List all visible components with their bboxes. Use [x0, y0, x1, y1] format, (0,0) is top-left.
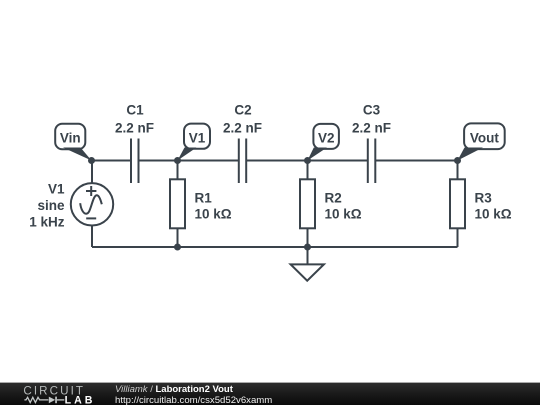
svg-text:2.2 nF: 2.2 nF — [115, 120, 154, 135]
svg-text:http://circuitlab.com/csx5d52v: http://circuitlab.com/csx5d52v6xamm — [115, 395, 272, 405]
svg-text:V2: V2 — [318, 130, 335, 145]
svg-text:10 kΩ: 10 kΩ — [325, 207, 362, 222]
svg-text:R1: R1 — [195, 190, 213, 205]
svg-text:Villiamk / Laboration2 Vout: Villiamk / Laboration2 Vout — [115, 384, 234, 395]
svg-text:2.2 nF: 2.2 nF — [352, 120, 391, 135]
svg-text:sine: sine — [37, 198, 65, 213]
svg-text:V1: V1 — [189, 130, 206, 145]
svg-text:Vout: Vout — [470, 130, 499, 145]
svg-text:2.2 nF: 2.2 nF — [223, 120, 262, 135]
svg-text:10 kΩ: 10 kΩ — [195, 207, 232, 222]
svg-text:R3: R3 — [475, 190, 493, 205]
svg-text:10 kΩ: 10 kΩ — [475, 207, 512, 222]
svg-text:V1: V1 — [48, 182, 65, 197]
svg-text:C1: C1 — [126, 103, 144, 118]
svg-text:Vin: Vin — [60, 130, 81, 145]
svg-text:C2: C2 — [234, 103, 251, 118]
svg-text:R2: R2 — [325, 190, 342, 205]
svg-text:LAB: LAB — [65, 394, 96, 405]
svg-text:1 kHz: 1 kHz — [29, 215, 65, 230]
svg-text:C3: C3 — [363, 103, 381, 118]
